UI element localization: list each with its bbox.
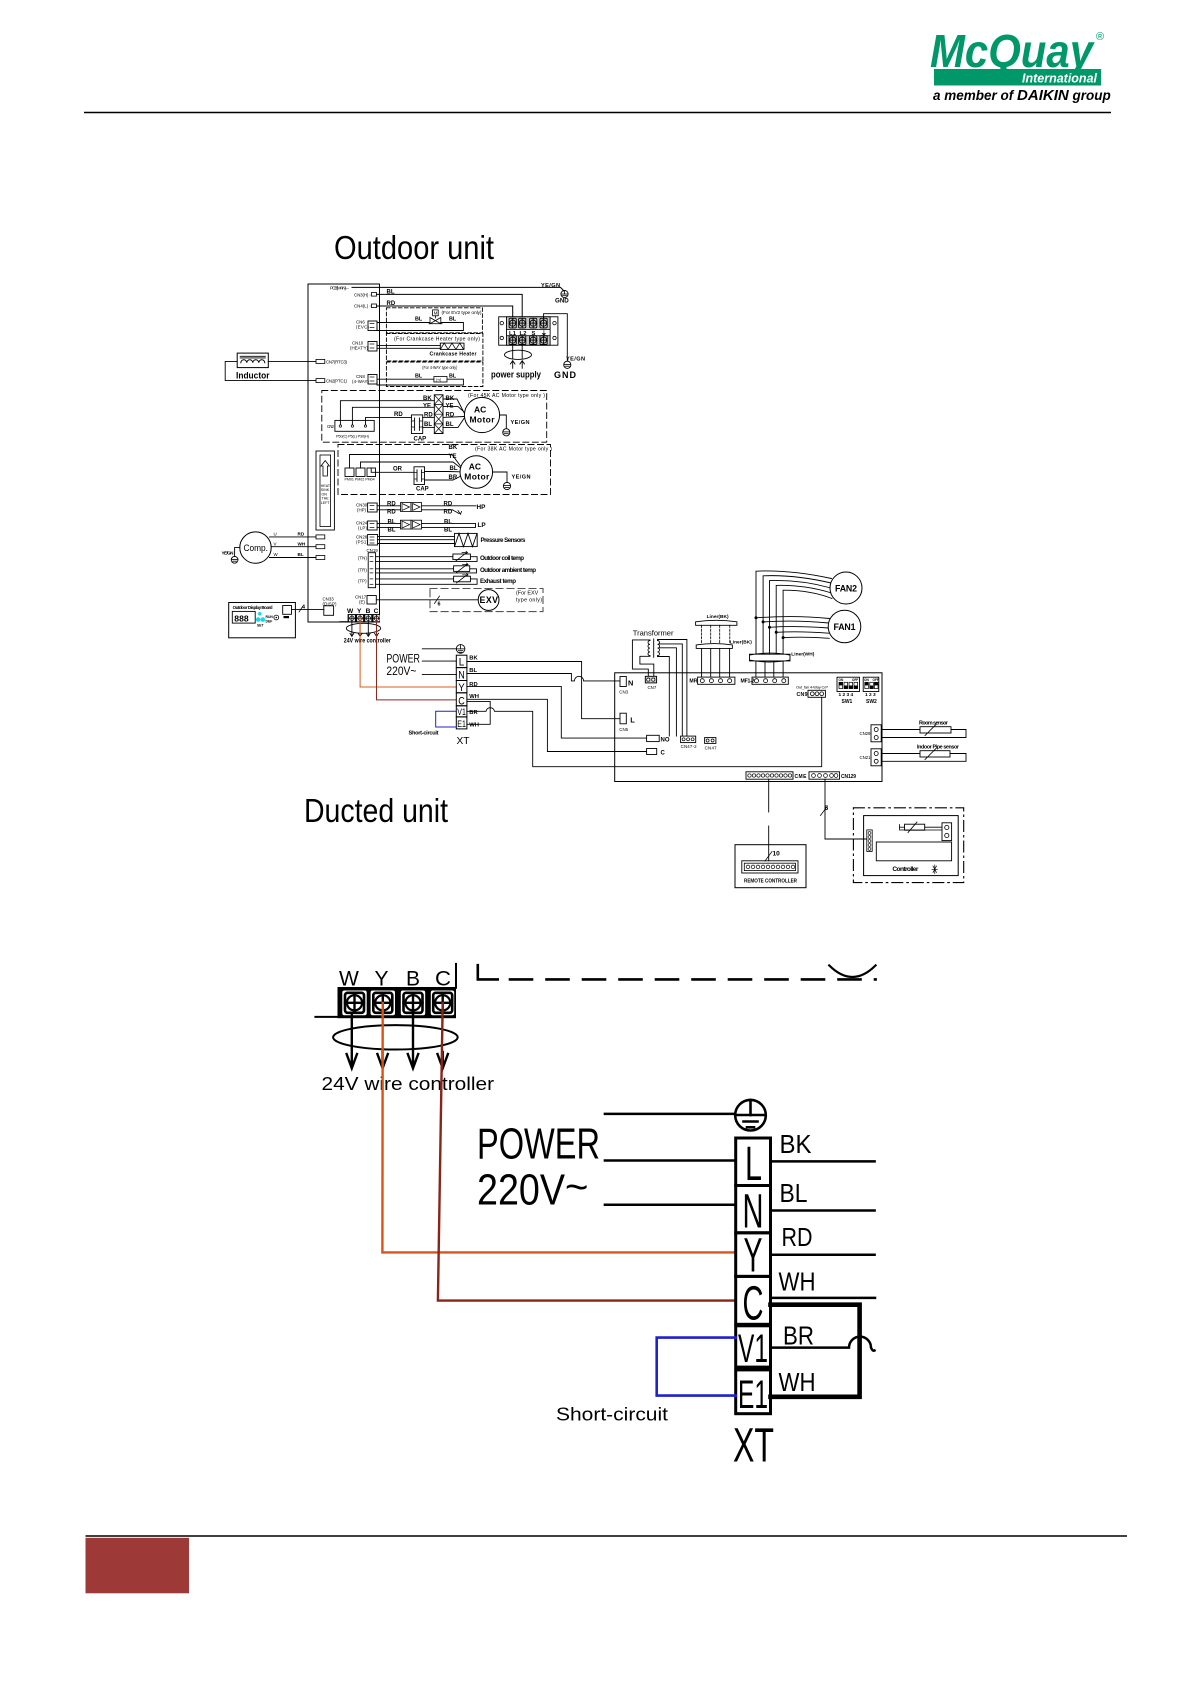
wire CN6 to valve [377,322,430,324]
svg-text:type only): type only) [516,598,542,604]
wire BL N to CN3 with hop [467,674,621,681]
dashed box 45K AC motor option [322,391,547,443]
big arrow Y [377,1052,387,1068]
svg-text:DEF: DEF [266,619,273,623]
svg-text:CAP: CAP [416,487,429,493]
mini arrows to controller [350,622,378,636]
svg-text:BK: BK [469,656,478,662]
controller inner box [864,816,959,876]
wire YE 45K [352,407,434,425]
svg-text:CN9: CN9 [797,692,808,698]
svg-text:RD: RD [387,510,396,516]
wire inductor to CN2(PTC1) [225,361,316,380]
svg-text:L: L [459,657,465,669]
svg-text:220V~: 220V~ [386,666,416,678]
wire BR V1 to CN9 with hop [467,697,822,766]
svg-text:E1: E1 [457,719,466,730]
wire BL CN3 to L2 [377,294,523,318]
wire RD Y to NO [467,686,647,738]
svg-text:(For EV2 type only): (For EV2 type only) [442,310,482,316]
svg-text:FAN1: FAN1 [834,622,856,632]
wires HP [377,505,400,507]
wires LP [377,522,400,524]
svg-text:Motor: Motor [464,472,490,482]
svg-text:XT: XT [457,735,471,747]
controller display rect [876,842,951,861]
svg-text:OFF: OFF [873,678,879,682]
primary wires [632,640,650,676]
mini ground symbol [456,645,465,654]
svg-text:YE/GN: YE/GN [512,475,531,481]
capacitor Liner(WH) [750,652,815,678]
svg-text:Motor: Motor [470,415,496,425]
indoor main PCB outline [615,673,882,782]
svg-text:MR: MR [689,678,697,684]
svg-text:BK: BK [423,396,432,402]
fan bus junction dots [755,616,785,639]
crankcase heater element [440,343,464,349]
svg-text:Room sensor: Room sensor [919,720,949,726]
wire BK L to CN5 [467,662,621,719]
ground GND right [554,361,577,380]
svg-text:BL: BL [298,552,304,557]
svg-text:CN47: CN47 [705,746,718,751]
svg-text:CN7: CN7 [648,685,657,690]
earth wire from terminal to GND right [544,314,568,361]
svg-text:POWER: POWER [477,1120,600,1169]
mini terminal W Y B C [347,608,380,622]
svg-text:BL: BL [424,422,432,428]
svg-text:RD: RD [444,502,453,508]
svg-text:SW1: SW1 [842,699,853,705]
svg-text:CN7(RTC3): CN7(RTC3) [326,359,348,364]
power supply ellipse [505,350,532,359]
big wire BR with hop [771,1337,875,1351]
svg-text:CN29: CN29 [860,731,872,736]
wire CME to remote controller [768,779,770,812]
svg-text:W: W [347,608,354,615]
heat sink tall box [316,451,334,530]
terminal screws top row [509,318,547,328]
wire dark red big [438,1003,734,1301]
svg-text:RD: RD [782,1222,813,1252]
wires to pressure sensor [378,536,455,538]
terminal W [342,991,366,1016]
svg-text:Outdoor Display Board: Outdoor Display Board [233,605,273,610]
svg-text:WH: WH [298,541,306,546]
dashed box EXV option [430,589,543,612]
svg-text:Pressure Sensors: Pressure Sensors [481,537,527,544]
relay C [647,749,657,755]
compressor Comp. [240,532,271,563]
svg-text:Ducted unit: Ducted unit [304,792,448,829]
svg-text:10: 10 [773,851,781,858]
svg-text:BL: BL [780,1178,808,1208]
svg-text:LP: LP [478,522,487,529]
svg-text:M: M [434,311,438,316]
LP switch boxes [400,520,411,529]
big jumper C row to E1 [771,1305,860,1397]
svg-text:REMOTE CONTROLLER: REMOTE CONTROLLER [744,878,797,884]
svg-text:SET: SET [257,624,265,628]
fan motor FAN2 [830,572,862,604]
controller 2-pin connector [942,823,952,841]
relay NO [647,735,660,741]
svg-text:Comp.: Comp. [244,543,269,554]
svg-text:BR: BR [469,710,478,716]
svg-text:®: ® [1096,31,1104,43]
board edge line above strip [455,964,457,988]
wire short-circuit blue mini [436,711,457,727]
svg-text:1 2 3 4: 1 2 3 4 [839,692,854,698]
wire RD 45K [366,417,412,424]
svg-text:CN129: CN129 [841,774,856,780]
svg-text:PM01 PM02 PM04: PM01 PM02 PM04 [345,478,375,482]
connector CME [746,772,793,779]
svg-text:V: V [274,541,277,546]
wire display to CN33 [292,608,324,610]
svg-text:Outdoor ambient temp: Outdoor ambient temp [480,567,536,574]
splice ladder 45K [434,395,443,434]
svg-text:RD: RD [298,532,305,537]
power supply terminal block [491,314,585,380]
svg-text:C: C [743,1278,764,1331]
svg-text:CN3: CN3 [619,690,628,695]
svg-text:Liner(BK): Liner(BK) [707,614,729,620]
wire BK 45K [340,401,434,425]
fan-out wires to motor 45K [443,399,464,427]
svg-text:RD: RD [387,502,396,508]
wires CAP to ladder [423,416,435,418]
ground GND top-right [555,290,569,304]
comp wires U V W [270,536,317,538]
svg-text:BR: BR [783,1321,814,1351]
svg-text:RD: RD [469,682,477,688]
valve EV2 bowtie [430,318,441,324]
svg-text:SW2: SW2 [866,699,877,705]
connectors PM01 PM02 PM04 [345,468,354,477]
svg-text:B: B [406,967,420,990]
svg-text:OFF: OFF [852,678,858,682]
big ellipse [333,1025,458,1049]
display connector [283,606,292,615]
svg-text:E1: E1 [738,1373,768,1417]
svg-text:(HEAT'Y): (HEAT'Y) [350,346,369,351]
fan-in wires to motor 38K [448,455,461,481]
svg-text:XT: XT [733,1420,774,1473]
svg-text:6: 6 [438,602,441,608]
svg-text:CN19: CN19 [367,548,379,553]
dashed box EV2 option [386,308,482,333]
svg-text:(For 38K AC Motor type only ): (For 38K AC Motor type only ) [475,447,552,453]
svg-text:HP: HP [477,504,487,511]
fan wire bus [756,571,832,654]
svg-text:C: C [458,695,465,707]
wire CN8 to coil [377,378,434,380]
svg-text:POWER: POWER [386,653,420,665]
wire PCB earth to GND [352,287,564,291]
footer rule [86,1535,1128,1537]
svg-text:Outdoor coil temp: Outdoor coil temp [480,555,524,562]
big ground wire [605,1113,735,1116]
svg-text:Short-circuit: Short-circuit [556,1404,668,1425]
svg-text:N: N [628,679,633,688]
svg-text:(E): (E) [359,600,365,605]
power supply feed lines [512,345,514,358]
svg-text:(TN): (TN) [358,556,367,561]
terminal B [401,991,425,1016]
wire BK 38K [350,455,449,469]
svg-text:Y: Y [375,967,389,990]
svg-text:Short-circuit: Short-circuit [409,731,439,737]
svg-text:(HP): (HP) [357,508,367,513]
header rule [84,112,1111,114]
connector CN3 N [620,677,626,687]
svg-text:EXV: EXV [480,595,499,605]
ground comp [231,556,238,563]
svg-text:N: N [458,669,465,681]
DIP switch SW2 [863,677,879,705]
svg-text:1 2 3: 1 2 3 [865,692,876,698]
svg-text:Indoor Pipe sensor: Indoor Pipe sensor [917,744,960,750]
svg-text:GND: GND [554,370,577,380]
terminal label band [507,329,551,335]
wires CN10 to heater [377,344,440,346]
dashed box Crankcase Heater option [386,334,483,362]
jumper WH C-row to E1 [467,701,490,724]
thermistor room sensor [882,720,967,737]
fan motor FAN1 [828,610,861,643]
wire motor to gnd 38K [493,472,507,483]
connector CN47 [705,738,716,744]
svg-text:Exhaust temp: Exhaust temp [480,578,516,585]
connector CN129 [809,772,840,779]
svg-text:LEFT: LEFT [321,501,331,505]
svg-text:CN47-2: CN47-2 [681,744,698,749]
big arrow C [438,1052,448,1068]
svg-text:BL: BL [444,528,452,534]
svg-text:NO: NO [661,738,670,744]
big short-circuit blue wire [657,1338,736,1396]
svg-text:(TR): (TR) [358,568,367,573]
svg-text:P50(C) P5(L) P30(H): P50(C) P5(L) P30(H) [336,435,370,439]
dashed box 4-WAY option [386,362,483,387]
connector CN21 [871,749,881,766]
svg-text:BK: BK [780,1129,813,1159]
big terminal strip body [338,987,457,1018]
HP switch boxes [400,503,411,512]
svg-text:CME: CME [795,774,808,780]
dashed box 38K AC motor option [338,445,551,495]
7-segment display [232,611,255,623]
pressure sensor element [455,533,478,546]
svg-text:Controller: Controller [892,866,918,873]
wires CAP to motor 38K [425,471,449,473]
svg-text:Outdoor unit: Outdoor unit [334,229,494,266]
svg-text:Crankcase Heater: Crankcase Heater [430,352,477,358]
footer red block [86,1538,190,1594]
EXV motor [478,590,499,611]
svg-text:(LP): (LP) [358,526,368,531]
svg-text:Inductor: Inductor [236,371,270,382]
svg-text:ON: ON [839,678,844,682]
controller thermistor [905,824,925,830]
wire CN129 to controller [825,779,867,839]
svg-text:BK: BK [449,445,458,451]
wire stub left of big strip [315,1016,337,1018]
svg-text:BL: BL [444,520,452,526]
svg-text:(4-WAY): (4-WAY) [352,379,370,384]
power supply arrows [510,361,524,369]
wire dark red mini C [377,618,456,700]
valve M box [433,310,439,316]
svg-text:Y: Y [357,608,362,615]
svg-text:(For Crankcase Heater type onl: (For Crankcase Heater type only) [394,337,480,343]
thermistor exhaust temp [376,573,517,585]
big ground symbol [735,1100,766,1131]
mini ground wire [422,648,456,650]
svg-text:CN5: CN5 [619,727,628,732]
AC motor 38K [460,456,493,489]
svg-text:(For EXV: (For EXV [516,591,539,597]
svg-text:ON: ON [864,678,869,682]
svg-text:L: L [745,1138,762,1191]
secondary wires [658,640,687,737]
svg-text:WH: WH [779,1367,816,1397]
big wire BK [771,1160,875,1163]
svg-text:a member of DAIKIN group: a member of DAIKIN group [933,87,1111,104]
svg-text:Out_fan 4-Way O.P: Out_fan 4-Way O.P [796,685,828,690]
LED cyan indicators [258,612,262,616]
big wire WH [771,1297,876,1300]
capacitor CAP 38K [414,467,425,485]
big wire BL [771,1209,875,1212]
wire motor to gnd 45K [500,415,507,429]
svg-text:YE/GN: YE/GN [222,551,235,556]
svg-text:RD: RD [394,412,403,418]
svg-text:(PS1): (PS1) [356,540,369,545]
svg-text:WH: WH [779,1266,816,1296]
svg-text:BL: BL [388,520,396,526]
terminal Y [371,991,395,1016]
svg-text:Liner(BK): Liner(BK) [730,639,752,645]
connector CN7 [645,676,656,683]
svg-text:24V wire controller: 24V wire controller [344,639,392,645]
DIP switch SW1 [837,677,860,705]
thermistor outdoor coil temp [376,551,525,562]
outdoor display board [229,603,296,638]
connector CN47-2 [681,736,696,743]
remote controller box [735,845,806,888]
svg-text:4: 4 [302,605,305,611]
thermistor indoor pipe sensor [882,744,967,761]
svg-text:CN4(L) ◦: CN4(L) ◦ [354,304,371,309]
wire orange mini Y [360,618,456,687]
wire CN17 to EXV with 6 [376,599,478,601]
McQuay logo wordmark [930,25,1111,104]
svg-text:BL: BL [450,466,458,472]
tiny symbol [932,865,938,874]
svg-text:U: U [274,532,277,537]
wire OR 38K to CAP [371,468,414,472]
svg-text:power supply: power supply [491,370,541,380]
capacitor CAP 45K [411,415,422,434]
svg-text:B: B [366,608,371,615]
big arrow B [408,1015,418,1068]
svg-text:International: International [1022,71,1097,86]
svg-text:220V~: 220V~ [477,1166,588,1215]
svg-text:AC: AC [474,405,486,415]
svg-text:Y: Y [458,682,465,694]
wire orange big [382,1003,733,1252]
svg-text:24V wire controller: 24V wire controller [322,1074,495,1094]
svg-text:YE/GN: YE/GN [511,420,530,426]
magnified EXV circle arc [829,965,875,977]
svg-text:(For 45K AC Motor type only ): (For 45K AC Motor type only ) [468,393,545,399]
svg-text:WH: WH [469,722,479,728]
svg-text:YE/GN: YE/GN [541,283,560,289]
svg-text:C: C [661,751,666,757]
svg-text:CN2: CN2 [327,424,335,429]
svg-text:888: 888 [234,613,249,623]
svg-text:W: W [339,967,359,990]
svg-text:L: L [630,716,635,725]
connector CN29 [871,725,881,742]
outdoor main PCB outline [308,284,380,622]
wire RD CN4 to L1 [377,306,513,319]
svg-text:GND: GND [555,298,569,305]
terminal C [431,991,454,1016]
big L N feed wires [605,1159,734,1162]
svg-text:CN21: CN21 [860,755,872,760]
svg-text:BL: BL [388,528,396,534]
thermistor outdoor ambient temp [376,563,537,574]
svg-text:Y: Y [744,1230,763,1283]
svg-text:CN2(PTC1): CN2(PTC1) [326,379,348,384]
svg-text:YE: YE [423,404,431,410]
wire WH C to C [467,699,647,751]
controller dash-dot box [853,808,963,883]
4-way coil [434,377,447,383]
svg-text:Liner(WH): Liner(WH) [791,652,814,658]
svg-text:(EVC): (EVC) [356,325,370,330]
magnified board corner [478,965,498,979]
svg-text:RD: RD [444,510,453,516]
svg-text:V1: V1 [738,1327,768,1371]
AC motor 45K [464,397,499,432]
svg-text:V1: V1 [457,707,466,718]
connector PM 45K [335,420,374,431]
svg-text:BL: BL [449,317,457,323]
magnified dashed indoor outline [510,978,876,981]
capacitor Liner(BK) upper [696,614,753,677]
logo green bar [934,69,1101,86]
big arrow W [347,1015,357,1068]
big terminal XT block [736,1138,771,1414]
svg-text:C: C [435,967,451,990]
svg-text:BL: BL [415,317,423,323]
transformer [632,629,687,737]
wire inductor to CN7(RTC3) [268,360,316,362]
svg-text:CAP: CAP [414,437,427,443]
svg-text:Transformer: Transformer [633,629,674,638]
svg-text:AC: AC [469,462,481,472]
svg-text:(TP): (TP) [358,579,367,584]
svg-text:RD: RD [424,413,433,419]
wire YE 38K [361,462,449,468]
ground 38K motor [503,482,510,489]
comp ground wire [235,548,240,557]
